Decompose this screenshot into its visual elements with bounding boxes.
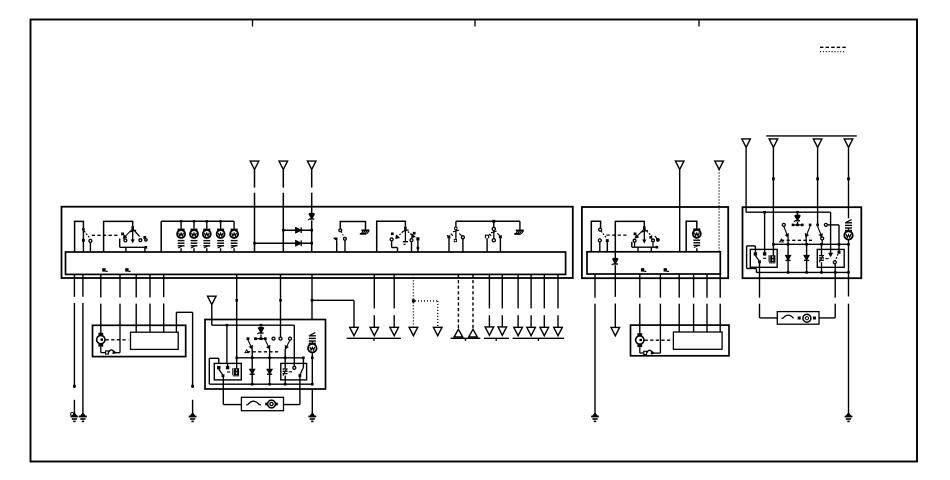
switch S7 blade a (635, 229, 644, 238)
wire W-u2f (719, 274, 721, 298)
K1 contact b (226, 366, 229, 369)
switch S5a post (455, 230, 457, 239)
wire W-u2d (693, 274, 695, 298)
wire W-c3 (393, 274, 395, 308)
linkage dashes M2 (645, 339, 673, 341)
heater bars L5 (231, 240, 238, 242)
switch S5a bottom contact (454, 239, 457, 242)
dotted branch (415, 300, 438, 302)
relay box RB1-K2 (281, 363, 307, 380)
switch S5b contact left (486, 235, 489, 238)
wire to relay K2 contact (293, 325, 295, 366)
switch S5b contact right (499, 235, 502, 238)
U3 wire down a (764, 212, 766, 254)
top rail above U3 (766, 135, 857, 137)
switch S7 post (643, 229, 645, 241)
wire W-u2b (659, 274, 661, 298)
wire H1 (679, 170, 681, 252)
wire W-u2e (706, 274, 708, 298)
U3 contact row (782, 223, 785, 226)
wire J2 (772, 147, 774, 244)
lamp L7 (844, 231, 852, 239)
switch S1 pivot (82, 228, 85, 231)
RB1 blade 1 (248, 340, 252, 349)
relay box RB1 outline (205, 320, 326, 390)
junction dot lamp 1 (180, 220, 182, 222)
switch S2 terminal bar (119, 239, 121, 248)
horn/pump FB1 (268, 400, 276, 408)
wire to relay K1 contact (226, 325, 228, 363)
ground G2 (81, 413, 85, 416)
zener RB1 (258, 327, 263, 329)
K4 contact sq (838, 251, 841, 254)
switch S7 contact c2 (652, 239, 655, 242)
lamp L4 (220, 221, 222, 230)
connector triangle H1 (675, 161, 684, 169)
RB1 linkage dashes (247, 351, 280, 353)
motor unit box M2 (631, 325, 730, 356)
RB1 left wrap (208, 358, 210, 384)
K3 linkage dash (763, 257, 769, 259)
triangle F1 (485, 327, 494, 335)
switch S2 contact c2 (139, 239, 142, 242)
switch S5b pivot (493, 221, 495, 227)
dotted wire W-d1 (412, 274, 414, 299)
switch S5b post (493, 231, 495, 239)
switch S5a dash left (451, 234, 453, 236)
junction dot lamp 4 (219, 220, 221, 222)
underline E (451, 337, 481, 339)
motor M1 (98, 333, 103, 336)
switch S4 terminals (391, 241, 393, 248)
wire from triangle A1 (254, 170, 256, 188)
switch S7 blade c (655, 236, 658, 241)
RB1 blade 3 (285, 340, 290, 349)
connector strip M1 (131, 332, 179, 349)
switch S5b dash left (489, 234, 491, 236)
switch S5a contact right (461, 236, 464, 239)
K4 coil wire (821, 244, 823, 255)
switch S2 blade b (133, 229, 140, 237)
wire W-J2 into K3 coil (772, 244, 774, 255)
wire J4 (848, 147, 850, 218)
diode RB1-D2 (269, 349, 271, 384)
dotted wire H2 (718, 170, 720, 252)
underline G (513, 337, 565, 339)
switch S5 rail (456, 220, 520, 222)
junction dot lamp 3 (206, 220, 208, 222)
heater bars L3 (203, 240, 210, 242)
heater bars under L6 (693, 239, 700, 241)
wire to K4 blade (838, 225, 840, 252)
motor M2 (637, 333, 642, 336)
switch S4 contact c2 (410, 239, 413, 242)
triangle group G (514, 327, 523, 335)
wires W-g1..g4 (517, 274, 519, 308)
heater bars L4 (217, 240, 224, 242)
K3 contact b (763, 252, 766, 255)
wire W-gnd1 (73, 274, 75, 296)
switch S1 blade (84, 231, 89, 238)
wire W-f1 (488, 274, 490, 308)
switch S6 frame (591, 221, 600, 252)
ground G1 (72, 413, 76, 416)
wire W-f2 (501, 274, 503, 308)
resistor R3 (846, 220, 851, 223)
relay K3 output (759, 262, 761, 298)
wire W-r2 (280, 274, 282, 337)
wire to ground via strip (175, 312, 177, 332)
switch S6 pivot (599, 228, 602, 231)
U3 left wrap wire (747, 245, 756, 247)
K4 blade (835, 254, 838, 261)
linkage dashes S1-S2 (92, 234, 118, 236)
legend dotted line sample (820, 51, 846, 53)
switch S4 post (404, 229, 406, 241)
wire W-c2 (373, 274, 375, 308)
breaker M2 (644, 351, 647, 354)
fuse FB2 (783, 315, 794, 318)
switch S5a pivot (455, 221, 457, 227)
motor M1 bottom link (100, 347, 102, 353)
switch S7 frame (615, 221, 644, 251)
connector triangle H2 (715, 161, 724, 169)
wire blade3 to coil K2 (284, 349, 286, 369)
wire W-m1 (100, 274, 102, 297)
connector triangle A2 (279, 161, 288, 169)
switch S2 blade a (123, 229, 132, 239)
switch S7 terminal bar (631, 242, 633, 247)
U3 rail 3 (756, 271, 848, 273)
wire J1 (745, 147, 747, 212)
junction dot D3b (310, 242, 313, 245)
ground G3 (191, 413, 195, 416)
wire W-m3 (135, 274, 137, 297)
switch S3 pivot (339, 229, 342, 232)
switch S4 contact sq b (413, 232, 416, 235)
motor FB2 (798, 317, 801, 320)
ground G5 (593, 413, 597, 416)
triangle I1 (611, 327, 620, 335)
K1 contact a (217, 366, 220, 369)
box U3 outline (743, 207, 862, 278)
connector triangle J3 (813, 139, 822, 147)
RB1 contact row (247, 337, 250, 340)
dashed wire W-e1 (457, 274, 459, 329)
switch S6 contact a (598, 239, 601, 242)
K2 blade (300, 367, 304, 375)
K1 linkage dash (227, 371, 232, 373)
triangle group C1 (350, 327, 359, 335)
switch S4 frame (377, 221, 406, 252)
lamp cluster rail (161, 220, 234, 222)
switch S7 blade b (644, 229, 652, 236)
heater bars L1 (178, 240, 185, 242)
K4 linkage dash (825, 258, 830, 260)
wire W-r1 (236, 274, 238, 319)
switch S4 blade a (397, 229, 405, 237)
underline F (484, 337, 509, 339)
wire W-tri (614, 274, 616, 297)
U3 blade 1 (784, 226, 788, 237)
U3 linkage dashes (781, 239, 812, 241)
switch S6 contact b (606, 239, 609, 242)
wire W-r1 inside (236, 320, 238, 369)
relay K1 output wire (222, 376, 224, 405)
fuse mark F3 in bus (641, 268, 644, 271)
switch S1 contact a (82, 239, 85, 242)
wire W-m5 (163, 274, 165, 297)
U3 rail 1 (746, 211, 831, 213)
RB1 lamp branch (310, 333, 315, 336)
wire W-m4 (149, 274, 151, 297)
diode D2 branch (255, 242, 312, 244)
triangle D1 (409, 327, 418, 335)
connector triangle B1 (208, 296, 217, 304)
relay box U3-K4 (817, 249, 844, 267)
fuse unit box FB1 (241, 397, 283, 410)
switch S3 contact right (344, 237, 347, 240)
zener Z2 in bus U2 (614, 252, 616, 259)
U3 wire down b (830, 212, 832, 253)
K4 coil bars (819, 255, 824, 257)
K3 blade (755, 256, 759, 262)
heater bars L2 (191, 240, 198, 242)
triangle D2 (433, 327, 442, 335)
lamp L5 (233, 221, 235, 230)
fuse mark F4 in bus (664, 268, 667, 271)
ground G4 (310, 413, 314, 416)
switch S7 contact sq b (649, 236, 652, 239)
switch S2 contact sq a (121, 233, 124, 236)
relay K4 output (834, 264, 836, 298)
switch S1 contact b (89, 239, 92, 242)
switch S2 contact c1 (124, 239, 127, 242)
junction dot lamp 2 (193, 220, 195, 222)
wire from triangle A3 (311, 170, 313, 188)
motor M2 bottom link (639, 347, 641, 353)
connector triangle A3 (307, 161, 316, 169)
RB1 rail B (209, 383, 312, 385)
box U1 outline (62, 207, 573, 278)
switch S6 blade (601, 231, 606, 238)
wire to ground G4 (311, 389, 313, 414)
switch S2 contact sq b (143, 236, 146, 239)
switch S4 contact sq a (391, 232, 394, 235)
lamp L2 (193, 221, 195, 230)
RB1 rail A (237, 357, 304, 359)
legend dashed line sample (820, 46, 847, 48)
U3 rail 2 (773, 243, 848, 245)
ground G6 (846, 413, 850, 416)
wire from triangle A2 (282, 170, 284, 188)
triangle F2 (498, 327, 507, 335)
box U2 outline (582, 207, 728, 278)
relay K2 output wire (299, 376, 301, 405)
K3 contact a (754, 252, 757, 255)
connector triangle J4 (844, 139, 853, 147)
diode RB1-D1 (251, 349, 253, 384)
switch S4 blade b (405, 229, 413, 236)
switch S1 frame (75, 221, 84, 252)
linkage dashes M1 (106, 339, 129, 341)
switch S4 pivot (404, 227, 407, 230)
connector triangle J2 (769, 139, 778, 147)
switch S3 blade (341, 232, 344, 238)
switch S5b dash right (497, 233, 499, 235)
fuse unit box FB2 (777, 312, 819, 325)
wire triangle B1 to relay box (211, 305, 213, 320)
switch S2 pivot (131, 226, 134, 229)
junction dot D3a (310, 229, 313, 232)
zener Z3 (797, 212, 799, 215)
breaker M1 (106, 351, 109, 354)
underline C1 (347, 337, 401, 339)
switch S3 contact left (335, 238, 338, 241)
diode U3-D2 (806, 244, 808, 272)
switch S3 frame (340, 222, 365, 230)
wire J3 (817, 147, 819, 224)
switch S7 contact c3 (657, 239, 659, 241)
linkage dashes S6-S7 (607, 234, 629, 236)
switch S2 frame (104, 221, 133, 252)
up triangle E2 (469, 329, 478, 337)
wire W-m2 (119, 274, 121, 297)
lamp L3 (206, 221, 208, 230)
chassis ground G-S3 (361, 229, 369, 231)
switch S4 contact c1 (390, 238, 393, 241)
K2 contact mid (293, 366, 296, 369)
wire W-gnd2 (82, 274, 84, 296)
K3 coil (770, 255, 775, 262)
K2 linkage dash (289, 371, 294, 373)
fuse FB1 (248, 401, 260, 405)
K1 blade (219, 369, 223, 375)
lamp L6 (693, 230, 701, 238)
switch S2 post (132, 229, 134, 241)
bus bar U1 (66, 252, 566, 274)
RB1 blade 2 (265, 340, 269, 349)
frame tick 1 (252, 20, 254, 27)
switch S7 contact sq a (634, 233, 637, 236)
K1 wire stub b (227, 363, 229, 366)
wire railA to K2 blade (302, 358, 304, 368)
up triangle E1 (454, 329, 463, 337)
switch S5b bottom contact (492, 239, 495, 242)
wire W-u2a (639, 274, 641, 298)
U3 contact arrow b (829, 253, 832, 256)
lamp L1 (180, 221, 182, 230)
switch S5a contact left (447, 235, 450, 238)
frame tick 3 (698, 20, 700, 27)
zener diode D3 on wire A3 (309, 213, 314, 215)
switch S4 contact sq c (416, 237, 419, 240)
motor unit box M1 (93, 325, 186, 356)
connector triangle A1 (250, 161, 259, 169)
frame tick 2 (474, 20, 476, 27)
K2 coil bars (283, 368, 288, 370)
wire W-r3 (311, 274, 313, 319)
lamp branch U2 frame (686, 221, 697, 252)
wire to ground G6 (848, 272, 850, 296)
wire W-u2c (678, 274, 680, 298)
relay box U3-K3 (750, 249, 777, 267)
wire W-gnd5 (594, 274, 596, 298)
switch S5a dash right (459, 234, 461, 236)
RB1 input bend (211, 320, 213, 326)
fuse mark F2 in bus (125, 268, 128, 271)
switch S2 contact c3 (145, 239, 147, 241)
K1 coil (234, 368, 239, 375)
U3 blade 2 (806, 226, 810, 237)
fuse mark F1 in bus (102, 268, 105, 271)
dashed wire W-e2 (472, 274, 474, 329)
K2 wire coil down (284, 376, 286, 385)
switch S7 pivot (643, 226, 646, 229)
wire W-m2 inside (119, 325, 121, 352)
connector strip M2 (673, 332, 722, 349)
bus bar U2 (587, 252, 720, 274)
U3 blade 3 (818, 226, 822, 237)
diode U3-D1 (787, 244, 789, 272)
switch S7 contact c1 (633, 239, 636, 242)
diode D1 branch (283, 229, 311, 231)
branch wire to triangle C1 (312, 299, 354, 301)
relay box RB1-K1 (214, 363, 241, 380)
connector triangle J1 (742, 139, 751, 147)
chassis ground G-S5 (519, 221, 521, 230)
